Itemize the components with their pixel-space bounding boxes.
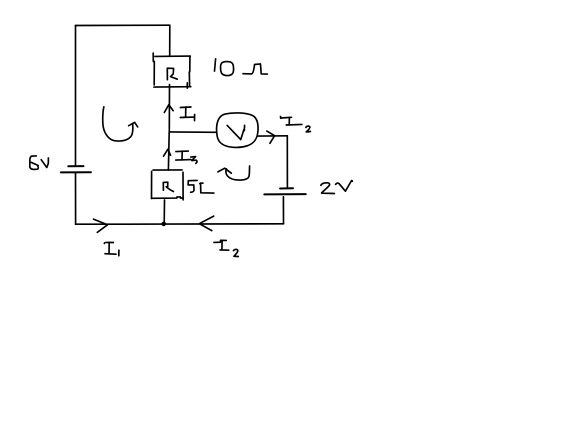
wire bottom right [164,223,284,225]
resistor R1 letter R [167,68,177,80]
wire mid branch below R1 [168,84,170,131]
wire mid branch top [169,25,171,56]
junction node bottom [161,222,166,227]
label I2 bottom [214,240,238,256]
arrow bottom-right (I2 direction) [199,216,213,231]
wire top [76,24,170,26]
wire junction to R2 [167,132,170,170]
wire right branch upper [286,136,288,188]
battery B2 2V long plate [264,193,306,195]
label 6V [30,156,49,170]
resistor R2 box [152,170,184,200]
label 10 ohm [215,59,268,76]
wire voltmeter to right corner [258,135,287,137]
label I2 top [281,117,311,132]
battery B1 6V short plate [68,165,83,167]
wire left lower [75,172,77,224]
resistor R2 letter R [163,182,173,191]
label I1 bottom [104,242,119,255]
arrow I2 right on wire [267,131,275,143]
wire junction to voltmeter [169,131,216,133]
wire right branch lower [282,197,284,224]
loop arrow middle (curved) [218,166,250,180]
arrow bottom-left (I1 direction) [94,219,108,232]
battery B2 2V short plate [280,187,293,189]
wire bottom left [76,223,164,225]
voltmeter V1 body [217,113,259,148]
label I3 [176,151,197,163]
battery B1 6V long plate [61,171,91,173]
loop arrow left (curved) [103,107,138,141]
arrow I1 up on mid branch [164,105,173,113]
wire R2 to bottom junction [163,200,165,224]
voltmeter letter V [227,125,244,139]
label I1 top [180,107,194,121]
arrow I3 up on mid branch [164,149,171,156]
label 5 ohm [188,180,214,193]
wire left upper [75,26,77,166]
resistor R1 box [153,53,191,88]
label 2V [321,181,353,194]
